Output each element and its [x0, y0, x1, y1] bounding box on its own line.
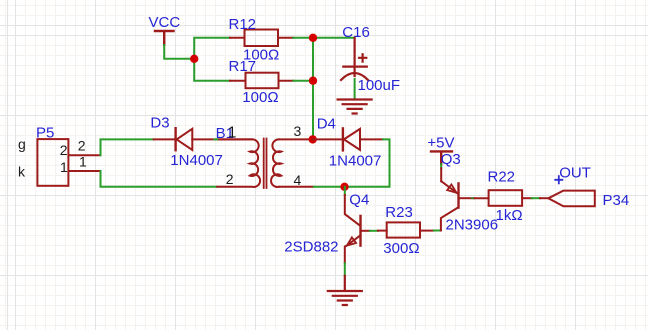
junction dot C: [309, 77, 317, 85]
wire D4 around to pin4: [314, 139, 390, 186]
wire Q4 base to R23: [370, 230, 378, 232]
wire R17 to node C: [293, 80, 313, 82]
capacitor C16: [341, 38, 368, 80]
svg-text:1: 1: [228, 124, 237, 141]
wire P5 pin2 to D3: [101, 139, 154, 155]
svg-text:k: k: [18, 164, 26, 180]
wire R22 to P34: [532, 197, 540, 199]
transformer pin 3 lead: [279, 138, 313, 140]
resistor R17: [230, 73, 293, 89]
svg-text:100uF: 100uF: [358, 77, 401, 94]
junction dot D at pin3: [309, 135, 317, 143]
svg-text:2: 2: [226, 171, 234, 187]
transistor Q3 base lead: [460, 197, 473, 199]
svg-text:P34: P34: [603, 192, 630, 209]
wire R12 to node B: [293, 37, 313, 39]
transformer core bars: [264, 139, 267, 189]
svg-text:100Ω: 100Ω: [242, 89, 278, 106]
wire +5V to Q3 emitter: [440, 164, 442, 168]
transistor Q4 base lead: [362, 230, 370, 232]
wire Q4 emitter to ground: [344, 263, 346, 276]
svg-text:2SD882: 2SD882: [284, 239, 338, 256]
junction dot A: [190, 55, 198, 63]
Q3 emitter lead upper: [440, 168, 442, 181]
junction dot B: [309, 34, 317, 42]
svg-text:R23: R23: [385, 204, 413, 221]
svg-text:OUT: OUT: [559, 165, 591, 182]
wire Q3 base to R22: [472, 197, 474, 199]
connector P5: [37, 139, 68, 186]
transistor Q4 emitter: [345, 235, 361, 263]
svg-text:R12: R12: [229, 16, 257, 33]
wire vertical bus node B down: [312, 38, 314, 140]
wire node B to C16: [313, 37, 355, 39]
transistor Q3 base bar: [457, 183, 459, 207]
svg-text:Q4: Q4: [349, 192, 369, 209]
power flag VCC: [155, 31, 174, 45]
svg-text:3: 3: [294, 123, 302, 139]
svg-text:300Ω: 300Ω: [383, 240, 419, 257]
svg-text:D4: D4: [317, 116, 336, 133]
svg-text:1N4007: 1N4007: [329, 153, 382, 170]
wire P5 pin1 to transformer pin2: [101, 171, 218, 187]
wire junction up to R12: [194, 38, 230, 59]
wire R23 to Q3: [434, 230, 441, 232]
svg-text:D3: D3: [150, 115, 169, 132]
resistor R12: [230, 30, 293, 47]
svg-text:+5V: +5V: [427, 135, 454, 152]
transistor Q3 collector: [441, 208, 458, 231]
svg-text:1: 1: [79, 154, 87, 170]
svg-text:1kΩ: 1kΩ: [496, 207, 523, 224]
transistor Q4 collector: [345, 195, 360, 226]
transistor Q3 emitter: [441, 181, 457, 193]
svg-text:g: g: [18, 136, 26, 152]
plus mark of OUT: [555, 176, 562, 183]
wire dot E to Q4 collector: [344, 187, 346, 195]
transformer pin 4 lead: [279, 186, 314, 188]
svg-text:1: 1: [60, 159, 68, 175]
power flag +5V: [431, 151, 452, 164]
port flag P34: [548, 191, 595, 207]
svg-text:4: 4: [294, 172, 302, 188]
P34 lead: [540, 197, 548, 199]
svg-text:2: 2: [78, 137, 86, 153]
svg-text:R22: R22: [488, 169, 516, 186]
transistor Q4 base bar: [359, 216, 361, 246]
ground for Q4: [328, 276, 362, 305]
P5 pin 1: [69, 170, 101, 172]
wire VCC to junction: [164, 45, 194, 59]
svg-text:R17: R17: [229, 58, 257, 75]
transformer B1 primary winding: [217, 139, 260, 187]
svg-text:C16: C16: [342, 24, 370, 41]
P5 pin 2: [69, 154, 101, 156]
Q3 emitter arrow: [447, 185, 456, 193]
svg-text:2: 2: [60, 142, 68, 158]
svg-text:Q3: Q3: [441, 151, 461, 168]
resistor R23: [378, 222, 434, 237]
Q4 emitter arrow: [347, 237, 356, 245]
ground for C16: [338, 100, 372, 114]
junction dot E at Q4 collector tap: [340, 183, 348, 191]
diode D3: [154, 128, 253, 150]
svg-text:P5: P5: [36, 125, 54, 142]
diode D4: [313, 128, 384, 150]
svg-text:2N3906: 2N3906: [446, 217, 499, 234]
transformer B1 secondary winding: [271, 139, 281, 187]
svg-text:VCC: VCC: [149, 14, 181, 31]
wire C16 to ground: [354, 79, 356, 99]
resistor R22: [474, 190, 532, 206]
svg-text:1N4007: 1N4007: [170, 152, 223, 169]
tiny wire green bit before transformer pin1: [214, 138, 217, 140]
wire junction down to R17: [194, 59, 230, 81]
